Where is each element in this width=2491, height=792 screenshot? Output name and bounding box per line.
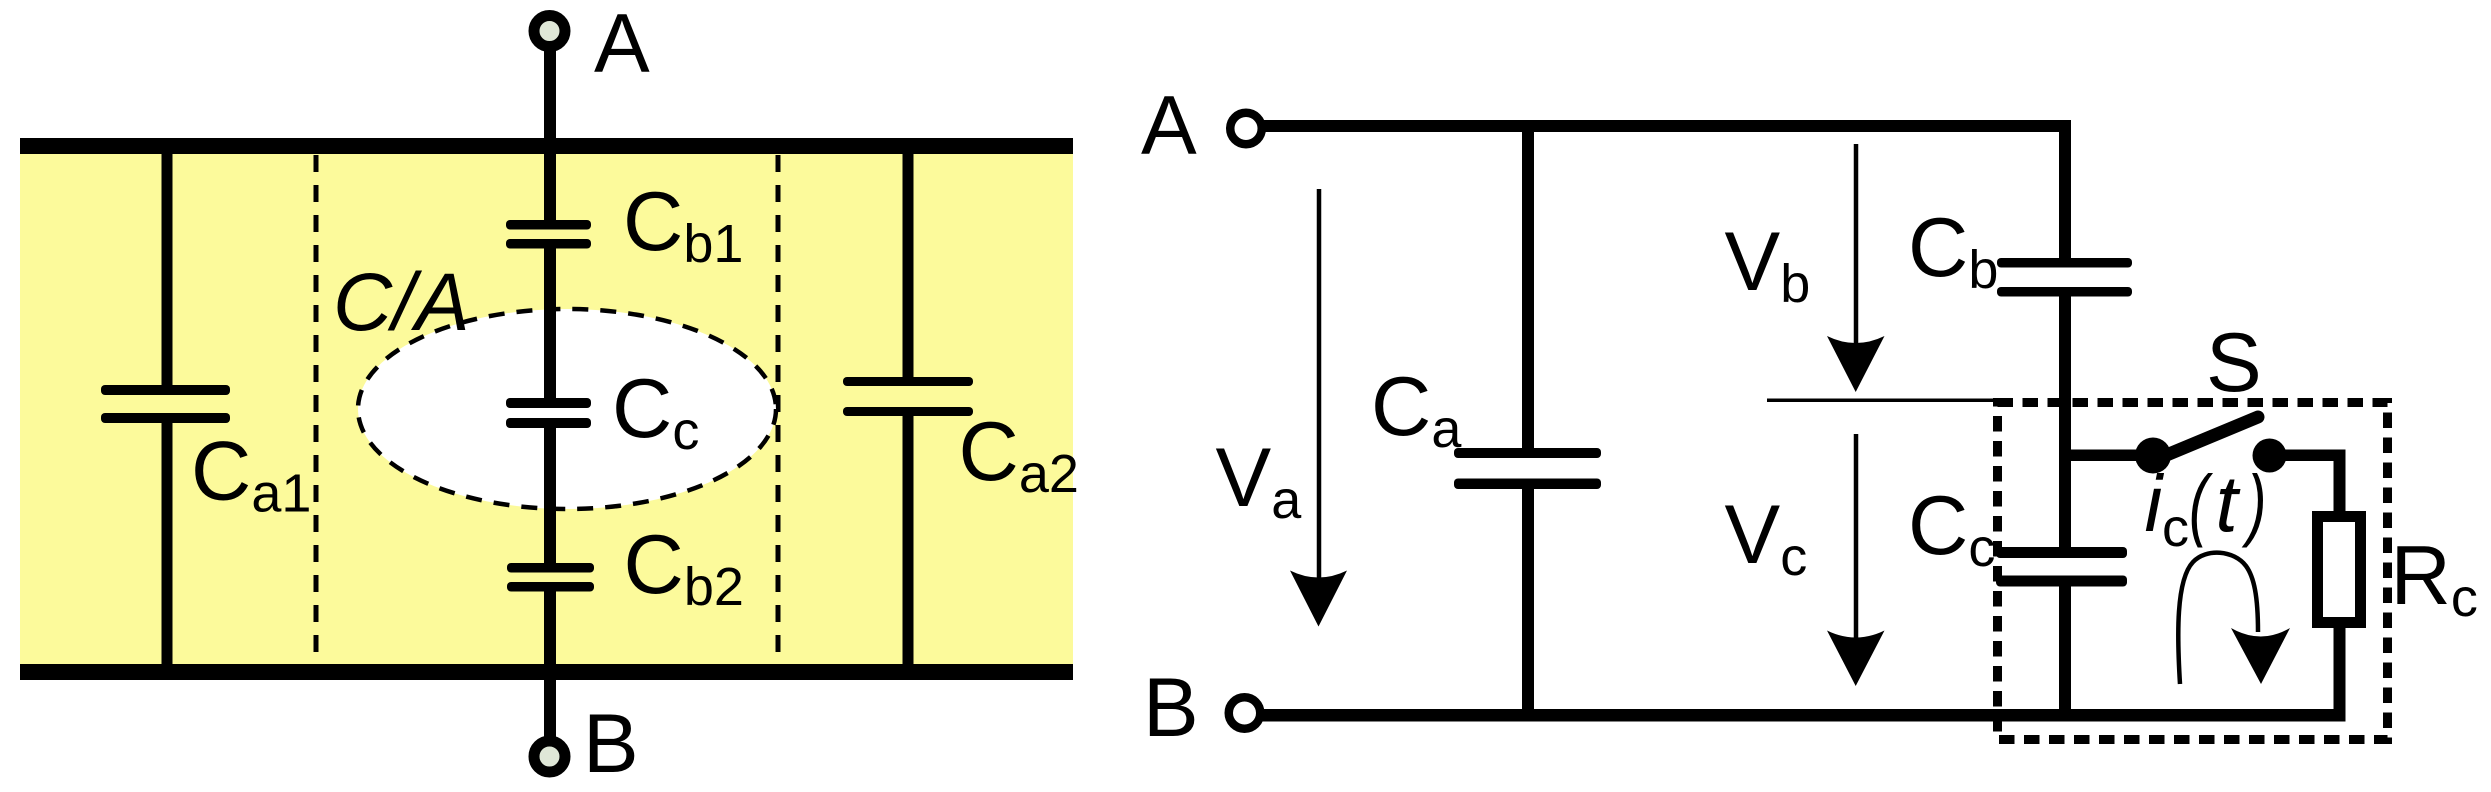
wire: bottom rail B: [1262, 709, 2345, 722]
wire: Cb branch upper: [2059, 120, 2071, 258]
wire: Ca branch lower: [1522, 489, 1534, 720]
capacitor Ca1 wire lower: [162, 423, 173, 664]
wire: Rc bottom lead: [2334, 628, 2346, 722]
capacitor Cb plate 1: [1997, 258, 2132, 268]
capacitor Ca plate 2: [1454, 479, 1601, 490]
wire: Ca branch upper: [1522, 120, 1534, 448]
capacitor Cb2 plate 1: [507, 563, 594, 573]
dashed measurement box: [1998, 403, 2388, 740]
capacitor Ca2 plate 2: [843, 407, 973, 416]
svg-text:Va: Va: [1216, 430, 1303, 530]
switch throw dot: [2253, 439, 2287, 473]
Vc arrowhead: [1827, 631, 1885, 687]
resistor Rc body: [2318, 517, 2361, 623]
svg-text:Ca: Ca: [1371, 359, 1462, 459]
top electrode plate: [20, 138, 1073, 154]
svg-text:B: B: [583, 696, 639, 790]
wire: top rail A: [1262, 120, 2071, 132]
switch pole dot: [2135, 438, 2171, 474]
svg-text:Rc: Rc: [2391, 528, 2478, 628]
capacitor Ca2 plate 1: [843, 377, 973, 386]
wire: Cc to Cb2: [544, 428, 556, 563]
wire: Rc top lead: [2334, 450, 2346, 517]
svg-text:A: A: [1141, 78, 1197, 172]
capacitor Ca1 plate 1: [101, 385, 230, 395]
capacitor Ca1 wire upper: [162, 146, 173, 385]
svg-text:Cc: Cc: [1908, 478, 1995, 578]
wire: Cb to Cc branch: [2059, 297, 2071, 548]
dielectric body (yellow): [20, 146, 1073, 672]
capacitor Cc(left) plate 1: [506, 398, 591, 408]
capacitor Cb2 plate 2: [507, 582, 594, 592]
svg-text:Vb: Vb: [1725, 214, 1811, 314]
svg-text:t: t: [2216, 459, 2241, 548]
svg-text:Cb: Cb: [1908, 200, 1998, 300]
capacitor Ca plate 1: [1454, 448, 1601, 458]
dashed region boundary left: [314, 155, 319, 664]
svg-text:): ): [2242, 459, 2267, 549]
svg-text:S: S: [2206, 315, 2262, 409]
terminal B (right): [1229, 697, 1261, 729]
svg-text:A: A: [594, 0, 650, 90]
dashed region boundary right: [776, 155, 781, 664]
wire: Cb1 to Cc: [544, 248, 556, 398]
capacitor Cc(left) plate 2: [506, 418, 591, 428]
Vb arrow shaft: [1854, 144, 1859, 345]
capacitor Cb plate 2: [1997, 287, 2132, 297]
svg-text:B: B: [1143, 660, 1199, 754]
capacitor Ca2 wire lower: [903, 415, 914, 664]
capacitor Cb1 plate 2: [506, 239, 591, 249]
Va arrowhead: [1290, 571, 1347, 627]
capacitor Cc plate 1: [1996, 547, 2127, 558]
Vb arrowhead: [1827, 336, 1885, 392]
ic(t) loop arrow curve: [2178, 553, 2258, 684]
thin node separator line: [1767, 399, 1997, 403]
C/A defect region dashed ellipse: [358, 309, 776, 509]
terminal A (left): [534, 16, 565, 47]
capacitor Ca1 plate 2: [101, 413, 230, 423]
capacitor Cb1 plate 1: [506, 220, 591, 230]
bottom electrode plate: [20, 664, 1073, 680]
ic(t) loop arrowhead: [2231, 628, 2290, 684]
capacitor Cc plate 2: [1996, 576, 2127, 587]
terminal B (left): [534, 741, 565, 772]
wire: terminal A to Cb1: [544, 31, 556, 220]
wire: Cc branch lower: [2059, 587, 2071, 722]
capacitor Ca2 wire upper: [903, 146, 914, 377]
svg-text:Vc: Vc: [1725, 487, 1808, 587]
Vc arrow shaft: [1854, 434, 1859, 638]
wire: branch to switch: [2059, 450, 2153, 462]
wire: Cb2 to terminal B: [544, 591, 556, 757]
svg-text:c: c: [2162, 498, 2189, 558]
switch lever: [2157, 417, 2258, 459]
wire: switch to Rc corner: [2269, 450, 2345, 462]
terminal A (right): [1230, 113, 1262, 145]
Va arrow shaft: [1317, 189, 1322, 578]
svg-text:(: (: [2189, 459, 2214, 549]
svg-text:C/A: C/A: [333, 257, 470, 348]
